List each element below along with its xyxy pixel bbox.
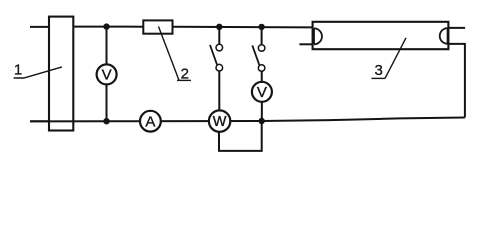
ammeter A bbox=[140, 111, 161, 132]
wire: lamp right lower pin down to bottom bus bbox=[448, 44, 465, 118]
label 3 bbox=[372, 38, 407, 79]
wire: left input stub top bbox=[30, 26, 50, 28]
fluorescent lamp 3 (tube) bbox=[313, 22, 449, 49]
wire: wattmeter voltage-coil loop bbox=[219, 121, 262, 151]
wire: lamp left lower pin stub bbox=[299, 43, 313, 45]
svg-text:V: V bbox=[102, 67, 112, 84]
ballast box 2 bbox=[143, 20, 172, 33]
switch S2 bbox=[252, 27, 265, 82]
svg-text:W: W bbox=[213, 114, 227, 130]
wattmeter W bbox=[209, 110, 230, 131]
voltmeter V2 bbox=[252, 82, 272, 102]
wire: bottom bus bbox=[30, 118, 465, 122]
wire: voltmeter V1 branch bbox=[106, 27, 108, 122]
label 1 bbox=[14, 62, 62, 79]
node: top junction at switch S2 bbox=[258, 24, 264, 30]
lamp left electrode bbox=[314, 28, 322, 44]
lamp right electrode bbox=[440, 28, 448, 44]
node: top junction at V1 branch bbox=[103, 23, 109, 29]
node: top junction at switch S1 bbox=[216, 24, 222, 30]
wire: V2 to bottom bus bbox=[261, 102, 263, 122]
voltmeter V1 bbox=[97, 64, 117, 84]
svg-text:A: A bbox=[145, 113, 155, 130]
svg-text:V: V bbox=[257, 84, 267, 101]
label 2 bbox=[159, 27, 192, 83]
node: bottom junction at V1 branch bbox=[103, 118, 109, 124]
wire: top bus from block to lamp bbox=[73, 26, 312, 29]
svg-text:1: 1 bbox=[14, 62, 22, 79]
regulator block 1 bbox=[49, 17, 73, 131]
switch S1 bbox=[210, 27, 223, 111]
svg-text:3: 3 bbox=[375, 62, 383, 79]
wire: lamp right upper pin stub bbox=[448, 27, 465, 29]
node: junction of V2 and loop on bottom bus bbox=[259, 118, 265, 124]
wire: left input stub bottom bbox=[30, 120, 50, 122]
